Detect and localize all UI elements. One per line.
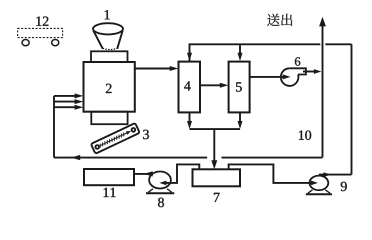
wire top rail <box>190 44 352 61</box>
arrow into pump8 <box>159 181 166 186</box>
hopper 1 <box>93 23 123 49</box>
hopper neck <box>91 51 128 62</box>
arrow rail into tower4 <box>187 53 192 62</box>
pump 8 <box>146 172 174 194</box>
wire spray riser <box>351 44 353 174</box>
feed arrows into vessel 2 <box>54 93 83 109</box>
tank 7 <box>193 169 241 186</box>
wire tank7 to pump9 <box>229 164 314 183</box>
arrow tower4 drain <box>187 112 192 129</box>
wire recycle line left segment <box>54 155 207 160</box>
label 7 <box>214 193 220 202</box>
label song-chu <box>267 14 292 26</box>
vessel 2 bottom outlet <box>91 112 127 125</box>
label 11 <box>104 188 116 197</box>
wire recycle line right segment <box>222 157 323 159</box>
pump 9 <box>306 176 332 195</box>
conveyor 3 <box>91 123 140 154</box>
arrow rail into tower5 <box>238 44 243 61</box>
label 10 <box>299 130 311 139</box>
label 9 <box>341 182 347 191</box>
arrow tower5 to fan6 <box>250 74 291 79</box>
arrow pump9 outlet <box>319 172 352 177</box>
bin 11 <box>84 169 134 185</box>
label 3 <box>143 130 149 139</box>
wire tank7 to pump8 <box>164 164 200 183</box>
arrow fan6 outlet <box>303 69 321 74</box>
cart 12 <box>18 28 63 45</box>
arrow tower5 drain <box>238 112 243 129</box>
wire left riser <box>53 96 55 158</box>
label 2 <box>106 84 112 93</box>
wire drain collector <box>190 128 241 130</box>
tower 4 <box>179 62 201 113</box>
vessel 2 <box>84 62 135 112</box>
arrow vessel2 to tower4 <box>135 66 179 71</box>
fan 6 <box>281 68 306 86</box>
arrow collector into tank7 <box>211 129 217 169</box>
label 1 <box>105 10 110 19</box>
label 5 <box>236 82 242 91</box>
label 4 <box>184 81 191 90</box>
arrow into pump9 <box>311 181 318 186</box>
tower 5 <box>229 62 250 113</box>
arrow pump8 to bin11 <box>134 171 153 176</box>
wire exhaust riser with top arrow <box>319 17 326 158</box>
arrow tower4 to tower5 <box>200 83 228 88</box>
label 12 <box>36 17 48 26</box>
label 6 <box>295 57 300 65</box>
label 8 <box>158 198 164 207</box>
